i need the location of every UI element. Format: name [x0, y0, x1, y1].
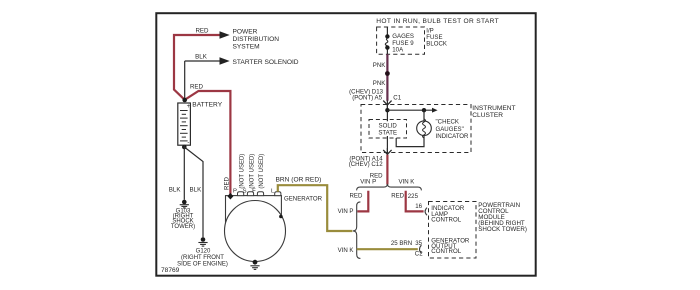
svg-text:CLUSTER: CLUSTER: [472, 112, 503, 119]
svg-text:RED: RED: [223, 176, 230, 189]
node cluster junction: [385, 108, 389, 112]
svg-text:HOT IN RUN, BULB TEST OR START: HOT IN RUN, BULB TEST OR START: [376, 18, 499, 25]
border frame: [156, 13, 535, 276]
fuse block dashed box: [377, 27, 425, 54]
svg-text:INSTRUMENT: INSTRUMENT: [472, 105, 515, 112]
connector pin 35 arc: [420, 245, 422, 253]
svg-text:STARTER SOLENOID: STARTER SOLENOID: [233, 59, 299, 66]
svg-text:POWER: POWER: [233, 29, 258, 36]
generator body box: [226, 196, 282, 229]
terminal bump L: [275, 192, 281, 196]
svg-text:+: +: [187, 103, 191, 110]
wire BRN (OR RED) generator L to splice brace: [278, 185, 353, 231]
battery B1: [178, 103, 191, 146]
terminal bump F: [257, 192, 263, 196]
svg-text:"CHECK: "CHECK: [436, 119, 460, 126]
svg-text:VIN K: VIN K: [398, 179, 414, 186]
connector C1 entry arrow: [383, 101, 391, 111]
arrow to starter solenoid: [220, 57, 230, 64]
wire RED cluster to splice bracket: [386, 155, 388, 185]
splice alternatives bracket: [357, 184, 422, 191]
node battery negative junction: [182, 145, 187, 150]
svg-text:225: 225: [408, 193, 419, 200]
svg-text:CONTROL: CONTROL: [431, 216, 461, 223]
generator rotor circle: [225, 201, 286, 262]
svg-text:VIN K: VIN K: [338, 247, 354, 254]
wire PNK fuse to C1: [386, 54, 388, 101]
svg-text:BATTERY: BATTERY: [192, 102, 222, 109]
svg-text:BLK: BLK: [169, 186, 182, 193]
svg-text:GAUGES": GAUGES": [436, 126, 464, 133]
wire BLK battery to G120: [184, 147, 203, 237]
svg-text:SYSTEM: SYSTEM: [233, 44, 260, 51]
fuse F9 GAGES: [385, 27, 389, 54]
wire RED VIN K branch: [406, 191, 424, 212]
svg-text:C2: C2: [415, 251, 423, 258]
svg-text:RED: RED: [391, 193, 404, 200]
svg-text:(NOT USED): (NOT USED): [240, 154, 246, 189]
svg-text:G120: G120: [196, 248, 211, 254]
wire lamp return to solid state: [396, 135, 424, 147]
arrow to power distribution system: [220, 31, 230, 38]
svg-text:(PONT) A5: (PONT) A5: [352, 94, 382, 101]
svg-text:78769: 78769: [161, 267, 180, 274]
ground G103: [171, 200, 195, 230]
svg-text:(NOT USED): (NOT USED): [259, 154, 265, 189]
wire RED VIN P branch: [357, 191, 368, 212]
svg-text:STATE: STATE: [378, 130, 397, 137]
arrow continuation right: [432, 108, 438, 113]
ground G120: [177, 237, 228, 267]
wire cluster internal horizontal: [387, 109, 432, 111]
svg-text:25 BRN: 25 BRN: [391, 240, 412, 247]
svg-text:TOWER): TOWER): [171, 224, 195, 230]
svg-text:(NOT USED): (NOT USED): [249, 154, 255, 189]
svg-text:C1: C1: [393, 94, 401, 101]
svg-text:RED: RED: [350, 192, 363, 199]
wire RED battery to generator: [185, 91, 231, 196]
svg-text:(CHEV) C12: (CHEV) C12: [349, 161, 383, 168]
VIN option brace: [353, 202, 361, 259]
wire BLK to starter solenoid: [185, 61, 221, 100]
svg-text:PNK: PNK: [373, 62, 386, 69]
wire cluster internal vertical: [386, 105, 388, 153]
svg-text:BLK: BLK: [195, 54, 208, 61]
svg-text:BLOCK: BLOCK: [426, 41, 447, 48]
node generator P junction: [227, 193, 233, 200]
svg-text:INDICATOR: INDICATOR: [436, 133, 470, 140]
svg-text:BLK: BLK: [190, 186, 203, 193]
svg-text:VIN P: VIN P: [338, 208, 354, 215]
instrument cluster dashed box: [361, 105, 471, 153]
connector A14/C12 exit arrow: [383, 148, 391, 155]
wire lamp feed stub: [423, 110, 425, 121]
svg-text:VIN P: VIN P: [360, 179, 376, 186]
terminal bump S: [247, 192, 253, 196]
svg-text:DISTRIBUTION: DISTRIBUTION: [233, 36, 280, 43]
wire BLK battery to G103: [183, 145, 185, 200]
svg-text:35: 35: [415, 240, 422, 247]
svg-text:10A: 10A: [392, 46, 404, 53]
powertrain control module dashed box: [429, 202, 477, 259]
node above indicator lamp: [422, 108, 426, 112]
solid state dashed box: [369, 120, 407, 139]
svg-text:SIDE OF ENGINE): SIDE OF ENGINE): [177, 261, 228, 267]
label SOLID STATE: [375, 122, 401, 136]
node on generator right edge: [279, 215, 283, 219]
svg-text:-: -: [187, 139, 189, 146]
svg-text:BRN (OR RED): BRN (OR RED): [276, 176, 322, 183]
terminal bump P: [238, 192, 244, 196]
node splice on PNK wire: [385, 71, 390, 76]
svg-text:PNK: PNK: [373, 80, 386, 87]
indicator lamp CHECK GAUGES: [417, 119, 432, 138]
svg-text:SHOCK TOWER): SHOCK TOWER): [478, 226, 527, 233]
ground at generator case: [250, 260, 259, 270]
svg-text:P: P: [233, 188, 237, 194]
svg-text:CONTROL: CONTROL: [431, 248, 461, 255]
svg-text:(RIGHT FRONT: (RIGHT FRONT: [181, 255, 224, 261]
svg-text:RED: RED: [195, 28, 209, 35]
svg-text:SOLID: SOLID: [379, 123, 398, 130]
wire 25 BRN to PCM: [357, 248, 418, 250]
node battery positive junction: [182, 98, 187, 103]
wire RED to power distribution: [174, 34, 221, 100]
svg-text:GENERATOR: GENERATOR: [284, 195, 323, 202]
svg-text:RED: RED: [190, 83, 204, 90]
connector pin 16 arc: [425, 208, 427, 216]
svg-text:16: 16: [415, 203, 422, 210]
